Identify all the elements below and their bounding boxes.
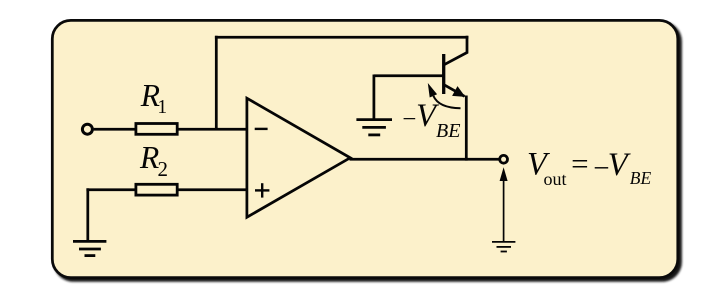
svg-text:BE: BE	[436, 120, 460, 142]
input terminal	[82, 124, 92, 134]
wire R2 to op-amp non-inverting input	[177, 188, 248, 191]
label -VBE	[402, 98, 460, 142]
op-amp minus symbol	[255, 128, 268, 130]
svg-text:R: R	[139, 140, 159, 175]
ground at transistor base: bars	[356, 120, 392, 135]
wire R2 left to corner	[86, 188, 135, 191]
wire R1 to op-amp inverting input	[178, 128, 249, 131]
svg-text:out: out	[544, 169, 567, 189]
wire emitter down to output	[465, 96, 468, 161]
label R2	[139, 140, 168, 181]
svg-text:V: V	[608, 147, 631, 183]
ground at transistor base: vertical stub	[373, 75, 376, 120]
label R1	[140, 78, 167, 118]
svg-text:−: −	[402, 106, 416, 133]
svg-text:BE: BE	[630, 168, 652, 188]
svg-text:2: 2	[158, 157, 169, 181]
ground at R2: bars	[73, 241, 106, 255]
wire collector lead	[443, 36, 467, 65]
wire feedback vertical from node	[215, 36, 218, 129]
op-amp plus symbol	[255, 183, 269, 197]
output terminal	[500, 155, 508, 163]
curved arrow for VBE	[433, 96, 460, 108]
svg-text:=: =	[571, 146, 588, 181]
card background	[52, 20, 678, 277]
wire corner down to ground	[86, 188, 89, 241]
transistor Q1 emitter lead	[444, 85, 465, 97]
resistor R1	[136, 124, 177, 135]
transistor Q1 base bar	[442, 54, 445, 94]
wire op-amp output	[350, 158, 499, 161]
transistor Q1 base lead	[374, 74, 445, 77]
resistor R2	[136, 184, 177, 195]
probe arrow line at output	[503, 176, 505, 242]
label Vout = -VBE	[527, 146, 651, 189]
card shadow	[54, 22, 682, 282]
transistor Q1 emitter arrowhead	[452, 86, 465, 97]
probe arrowhead	[500, 167, 508, 181]
probe ground bars	[492, 242, 515, 252]
wire input to R1	[94, 128, 135, 131]
op-amp U1	[247, 98, 350, 217]
wire feedback top horizontal	[215, 36, 469, 39]
svg-text:1: 1	[157, 97, 167, 118]
